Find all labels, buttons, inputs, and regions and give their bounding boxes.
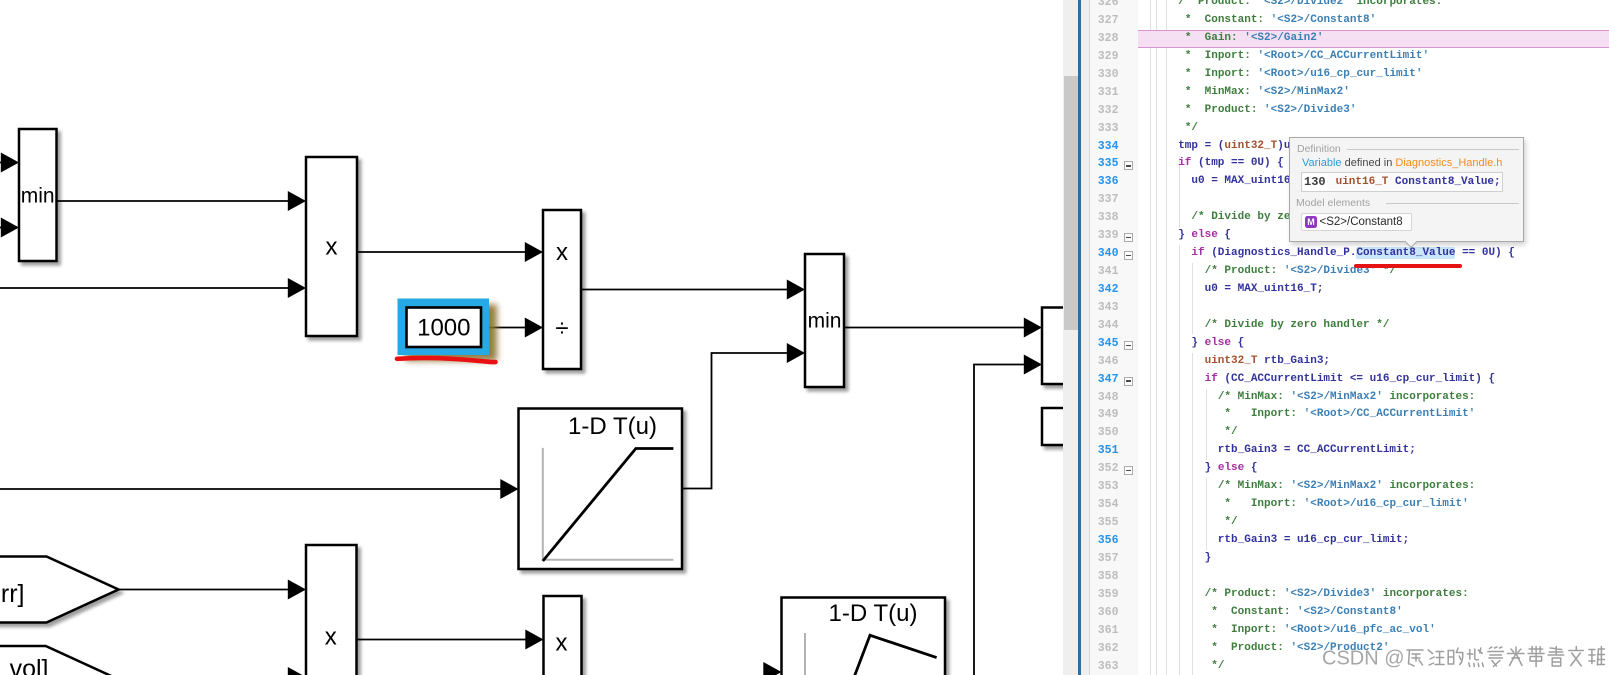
wire Product1 out to Divide port 1 xyxy=(357,251,529,253)
highlighted row 328 xyxy=(1138,30,1609,48)
svg-text:1000: 1000 xyxy=(417,315,470,342)
wire into Lookup2 input (clipped at bottom) xyxy=(775,672,777,675)
clipped block B at canvas right edge xyxy=(1042,408,1072,445)
CSDN watermark xyxy=(1322,644,1607,671)
1-D lookup table block LUT2 (clipped at bottom) xyxy=(782,598,946,675)
code lines xyxy=(1152,0,1442,12)
svg-text:1-D T(u): 1-D T(u) xyxy=(568,413,657,440)
wire Lookup1 out to MinMax2 port 2 xyxy=(682,353,791,489)
wire Divide out to MinMax2 port 1 xyxy=(581,289,791,291)
minmax block M1 "min" xyxy=(19,129,57,261)
wire arrowheads xyxy=(1,153,1042,675)
svg-text:÷: ÷ xyxy=(555,315,568,342)
1-D lookup table block LUT1 xyxy=(519,409,683,570)
canvas scrollbar track xyxy=(1063,0,1079,675)
wire into Lookup1 input xyxy=(0,488,505,490)
svg-text:x: x xyxy=(326,234,338,261)
svg-text:x: x xyxy=(556,239,568,266)
product block X2 "x" (clipped at bottom) xyxy=(306,545,357,675)
line numbers xyxy=(1079,0,1119,12)
wire MinMax2 out to clipped block A port 1 xyxy=(844,327,1028,329)
wire MinMax1 out to Product1 port 1 xyxy=(57,200,293,202)
svg-text:rr]: rr] xyxy=(1,580,25,608)
minmax block M2 "min" xyxy=(805,254,844,387)
red annotation underline in code xyxy=(1354,264,1462,268)
product block X3 "x" (clipped at bottom) xyxy=(544,596,582,675)
svg-text:x: x xyxy=(325,624,337,651)
editor breakpoint strip xyxy=(1081,0,1090,675)
divide block "x ÷" xyxy=(543,210,581,369)
clipped block A at canvas right edge xyxy=(1042,308,1072,385)
product block X1 "x" xyxy=(306,157,357,336)
wire Constant1000 out to Divide port 2 xyxy=(489,327,529,329)
editor gutter background xyxy=(1090,0,1137,675)
goto tag pentagon Tag2 "vol]" (clipped at bottom) xyxy=(0,646,118,675)
wire into MinMax1 port 2 xyxy=(0,227,4,229)
indent guides xyxy=(1150,0,1151,675)
blue pane divider xyxy=(1078,0,1081,675)
canvas scrollbar thumb xyxy=(1064,76,1078,330)
svg-text:1-D T(u): 1-D T(u) xyxy=(829,600,918,627)
definition tooltip xyxy=(1289,137,1524,243)
goto tag pentagon Tag1 "rr]" xyxy=(0,557,119,623)
svg-text:x: x xyxy=(556,630,568,657)
simulink canvas xyxy=(0,0,1063,675)
svg-text:min: min xyxy=(21,185,55,208)
wire from Lookup2 up to clipped block A port 2 xyxy=(974,365,1028,675)
wire Product2 out to Product3 port 1 xyxy=(357,639,530,641)
M icon xyxy=(1305,216,1317,228)
red annotation underline below 1000 block xyxy=(397,358,496,362)
constant block "1000" with cyan selection highlight, tan shadow xyxy=(398,299,490,356)
svg-text:min: min xyxy=(808,310,842,333)
tooltip model element chip xyxy=(1301,213,1412,231)
tooltip code box xyxy=(1301,172,1503,192)
wire into MinMax1 port 1 xyxy=(0,162,4,164)
svg-text:vol]: vol] xyxy=(10,655,49,675)
tooltip notch xyxy=(1404,234,1418,248)
wire into Product1 port 2 xyxy=(0,287,292,289)
fold markers xyxy=(1124,161,1133,170)
wire Tag1 to Product2 port 1 xyxy=(119,589,293,591)
